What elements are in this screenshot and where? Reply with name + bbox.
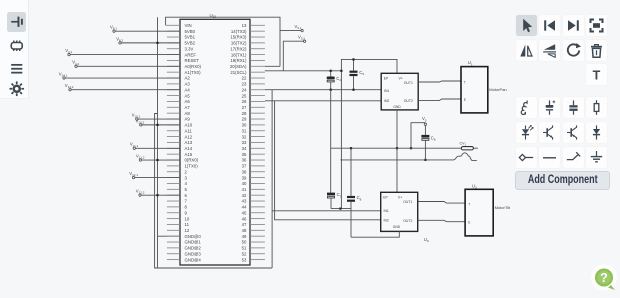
pin 27 (right row 15) [250,106,265,108]
svg-text:A10: A10 [185,123,193,128]
op-amp U11 motor driver MotorPan [381,73,418,110]
svg-text:C5: C5 [359,70,364,76]
pin 5VB0 (left row 2) [167,30,180,32]
wire driver U9 GND [351,231,399,237]
wire supply rail to driver U11 V+ [341,59,397,73]
pin 9 (left row 33) [167,212,180,214]
svg-text:5VB1: 5VB1 [185,35,196,40]
svg-text:43: 43 [242,199,247,204]
svg-text:GND@0: GND@0 [185,234,202,239]
svg-text:A6: A6 [185,99,191,104]
node V11,2 terminal [139,159,141,161]
pin A2 (left row 10) [167,77,180,79]
svg-text:OUT1: OUT1 [404,81,413,85]
pin A5 (left row 13) [167,95,180,97]
svg-text:26: 26 [242,99,247,104]
svg-text:OUT2: OUT2 [403,219,412,223]
pin A3 (left row 11) [167,83,180,85]
svg-text:48: 48 [242,228,247,233]
pin 31 (right row 19) [250,130,265,132]
svg-text:A15: A15 [185,152,193,157]
svg-text:27: 27 [242,105,247,110]
svg-text:21(SCL): 21(SCL) [230,70,247,75]
svg-text:A11: A11 [185,128,193,133]
svg-text:U1: U1 [468,60,473,66]
pin A13 (left row 21) [167,141,180,143]
pin 10 (left row 34) [167,218,180,220]
svg-text:46: 46 [242,216,247,221]
svg-text:29: 29 [242,117,247,122]
pin 26 (right row 14) [250,100,265,102]
wire IC to driver U11 IN1 [265,89,381,91]
pin 3 (left row 27) [167,177,180,179]
wire pin 20(SDA) to node V3,1 [265,31,301,67]
svg-text:23: 23 [242,82,247,87]
svg-text:C4: C4 [336,76,341,82]
node V11,1 terminal [133,147,135,149]
svg-text:AREF: AREF [185,52,197,57]
svg-text:V+: V+ [398,196,402,200]
node V12,2 terminal [139,194,141,196]
svg-text:V3,1: V3,1 [295,24,302,30]
svg-text:28: 28 [242,111,247,116]
pin 51 (right row 39) [250,247,265,249]
svg-text:18(TX1): 18(TX1) [231,52,247,57]
svg-text:39: 39 [242,175,247,180]
capacitor C4 [330,71,332,77]
svg-text:V5: V5 [422,116,427,122]
svg-text:A1(TX0): A1(TX0) [185,70,202,75]
node V3,2 terminal [303,40,305,42]
svg-text:OUT1: OUT1 [403,200,412,204]
pin 24 (right row 12) [250,89,265,91]
svg-text:E: E [464,98,466,102]
pin 33 (right row 21) [250,141,265,143]
pin 52 (right row 40) [250,253,265,255]
node V4,1 terminal [68,53,70,55]
svg-text:?: ? [600,271,608,285]
pin A11 (left row 19) [167,130,180,132]
pin RESET (left row 7) [167,59,180,61]
pin A1(TX0) (left row 9) [167,71,180,73]
svg-text:V14,1: V14,1 [59,71,68,77]
pin 11 (left row 35) [167,223,180,225]
pin 23 (right row 11) [250,83,265,85]
op-amp U10 main microcontroller body [180,19,250,265]
wire driver U9 OUT1 to motor [418,202,465,204]
pin 12 (left row 36) [167,229,180,231]
wire vertical to MotorTilt driver IN2 [275,101,381,220]
svg-text:E: E [468,220,470,224]
pin 13 (right row 1) [250,24,265,26]
svg-text:A14: A14 [185,146,193,151]
svg-text:51: 51 [242,246,247,251]
pin 47 (right row 35) [250,223,265,225]
wire top rail from VIN around IC [166,17,280,66]
pin A9 (left row 17) [167,118,180,120]
svg-text:31: 31 [242,128,247,133]
pin 5VB2 (left row 4) [167,42,180,44]
pin 46 (right row 34) [250,218,265,220]
svg-text:11: 11 [185,222,190,227]
pin 49 (right row 37) [250,235,265,237]
pin 40 (right row 28) [250,182,265,184]
svg-text:A12: A12 [185,134,193,139]
wire C4 bottom down to C7 [330,90,332,193]
svg-text:34: 34 [242,146,247,151]
pin A14 (left row 22) [167,147,180,149]
svg-text:GND@3: GND@3 [185,251,202,256]
pin A7 (left row 15) [167,106,180,108]
svg-text:5VB2: 5VB2 [185,41,196,46]
pin GND@4 (left row 41) [167,259,180,261]
pin 44 (right row 32) [250,206,265,208]
wire V5 supply rail [331,147,478,149]
pin 18(TX1) (right row 6) [250,54,265,56]
pin A8 (left row 16) [167,112,180,114]
wire pin 21(SCL) to node V3,2 [265,41,342,71]
pin 48 (right row 36) [250,229,265,231]
pin 25 (right row 13) [250,95,265,97]
pin 1(TX0) (left row 25) [167,165,180,167]
pin 42 (right row 30) [250,194,265,196]
svg-text:T: T [468,203,470,207]
pin GND@1 (left row 38) [167,241,180,243]
svg-text:U10: U10 [210,13,217,19]
wire vertical to MotorTilt driver IN1 [272,90,381,268]
svg-text:V12,1: V12,1 [129,171,138,177]
wire long vertical net x341 [340,71,342,209]
capacitor C6 [424,125,426,134]
svg-text:17(RX2): 17(RX2) [230,46,247,51]
pin 5 (left row 29) [167,188,180,190]
pin A4 (left row 12) [167,89,180,91]
svg-text:44: 44 [242,205,247,210]
svg-text:A5: A5 [185,93,191,98]
wire V5 to rail 148 [411,123,425,149]
pin A15 (left row 23) [167,153,180,155]
svg-text:C8: C8 [357,195,362,201]
wire bus to GND@0 pin [158,235,181,237]
pin 41 (right row 29) [250,188,265,190]
svg-text:U9: U9 [424,237,429,243]
pin 53 (right row 41) [250,259,265,261]
svg-text:45: 45 [242,210,247,215]
svg-text:20(SDA): 20(SDA) [230,64,247,69]
svg-text:IN2: IN2 [384,99,389,103]
pin GND@2 (left row 39) [167,247,180,249]
svg-text:VIN: VIN [185,23,192,28]
pin 16(TX2) (right row 4) [250,42,265,44]
pin 45 (right row 33) [250,212,265,214]
svg-text:49: 49 [242,234,247,239]
pin 20(SDA) (right row 8) [250,65,265,67]
svg-text:53: 53 [242,257,247,262]
svg-text:38: 38 [242,169,247,174]
pin GND@0 (left row 37) [167,235,180,237]
svg-text:13: 13 [242,23,247,28]
svg-text:V12,2: V12,2 [136,189,145,195]
wire IC to driver U11 IN2 [265,100,381,102]
pin 3.3V (left row 5) [167,48,180,50]
svg-text:22: 22 [242,76,247,81]
pin AREF (left row 6) [167,54,180,56]
svg-text:EP: EP [383,195,388,199]
pin 37 (right row 25) [250,165,265,167]
svg-text:V4,1: V4,1 [65,48,72,54]
svg-text:40: 40 [242,181,247,186]
pin 15(RX3) (right row 3) [250,36,265,38]
svg-text:IN1: IN1 [384,89,389,93]
svg-text:T: T [464,80,466,84]
svg-text:A8: A8 [185,111,191,116]
svg-text:5VB0: 5VB0 [185,29,196,34]
svg-text:V11,2: V11,2 [136,153,145,159]
motor U3 MotorTilt block [465,189,493,236]
svg-text:V14,2: V14,2 [65,83,74,89]
svg-text:A3: A3 [185,82,191,87]
pin A6 (left row 14) [167,100,180,102]
svg-text:MotorPan: MotorPan [489,87,506,92]
svg-text:47: 47 [242,222,247,227]
svg-text:C7: C7 [337,192,342,198]
capacitor C5 [353,59,355,70]
svg-text:41: 41 [242,187,247,192]
wire outer loop left+bottom [155,114,273,269]
svg-text:A4: A4 [185,87,191,92]
svg-text:OUT2: OUT2 [404,99,413,103]
svg-text:33: 33 [242,140,247,145]
pin 36 (right row 24) [250,159,265,161]
svg-text:3.3V: 3.3V [185,46,194,51]
pin 22 (right row 10) [250,77,265,79]
svg-text:V+: V+ [399,77,403,81]
pin A12 (left row 20) [167,136,180,138]
svg-text:V8,1: V8,1 [110,25,117,31]
svg-text:V4,2: V4,2 [72,60,79,66]
op-amp U9 motor driver MotorTilt [381,192,418,231]
svg-text:32: 32 [242,134,247,139]
pin 39 (right row 27) [250,177,265,179]
svg-text:A0(RX0): A0(RX0) [185,64,202,69]
pin 5VB1 (left row 3) [167,36,180,38]
pin 17(RX2) (right row 5) [250,48,265,50]
svg-text:V8,2: V8,2 [116,36,123,42]
pin 21(SCL) (right row 9) [250,71,265,73]
svg-text:50: 50 [242,240,247,245]
svg-text:CV1: CV1 [460,142,467,147]
node V8,1 terminal [113,30,115,32]
svg-text:36: 36 [242,158,247,163]
svg-text:GND@4: GND@4 [185,257,202,262]
svg-text:52: 52 [242,251,247,256]
pin 2 (left row 26) [167,171,180,173]
svg-text:RESET: RESET [185,58,200,63]
wire driver U9 OUT2 to motor [418,220,465,221]
pin 50 (right row 38) [250,241,265,243]
node V4,2 terminal [75,65,77,67]
pin 0(RX0) (left row 24) [167,159,180,161]
fuse CV1 in series [461,147,473,150]
pin VIN (left row 1) [166,24,181,26]
node V3,1 terminal [301,29,303,31]
pin GND@3 (left row 40) [167,253,180,255]
svg-text:37: 37 [242,164,247,169]
svg-text:25: 25 [242,93,247,98]
node V14,2 terminal [69,89,71,91]
svg-text:V11,1: V11,1 [130,142,139,148]
wire cap ground segment [331,208,351,210]
pin 43 (right row 31) [250,200,265,202]
svg-text:GND@2: GND@2 [185,246,202,251]
svg-text:V3,2: V3,2 [298,35,305,41]
pin 7 (left row 31) [167,200,180,202]
svg-text:GND: GND [393,225,401,229]
svg-text:T: T [593,69,601,83]
pin 19(RX1) (right row 7) [250,59,265,61]
node V14,1 terminal [63,77,65,79]
svg-text:MotorTilt: MotorTilt [495,205,511,210]
pin 34 (right row 22) [250,147,265,149]
svg-text:GND: GND [393,105,401,109]
node V10,1 terminal [136,118,138,120]
wire driver U11 OUT2 to motor [418,99,461,100]
svg-text:C6: C6 [431,135,436,141]
svg-text:A9: A9 [185,117,191,122]
pin 8 (left row 32) [167,206,180,208]
pin 38 (right row 26) [250,171,265,173]
svg-text:19(RX1): 19(RX1) [230,58,247,63]
svg-text:0(RX0): 0(RX0) [185,158,199,163]
pin 29 (right row 17) [250,118,265,120]
wire ground bus [157,17,159,268]
node V12,1 terminal [132,176,134,178]
svg-text:A2: A2 [185,76,191,81]
svg-text:12: 12 [185,228,190,233]
node V8,2 terminal [119,42,121,44]
pin 4 (left row 28) [167,182,180,184]
pin A10 (left row 18) [167,124,180,126]
motor U1 MotorPan block [461,67,488,113]
pin 35 (right row 23) [250,153,265,155]
svg-text:15(RX3): 15(RX3) [230,35,247,40]
wire driver U11 OUT1 to motor [418,81,461,82]
svg-text:10: 10 [185,216,190,221]
svg-text:30: 30 [242,123,247,128]
svg-text:A7: A7 [185,105,191,110]
node V10,2 terminal [140,124,142,126]
pin 30 (right row 18) [250,124,265,126]
svg-text:16(TX2): 16(TX2) [231,41,247,46]
svg-text:24: 24 [242,87,247,92]
pin 32 (right row 20) [250,136,265,138]
pin A0(RX0) (left row 8) [167,65,180,67]
svg-text:35: 35 [242,152,247,157]
pin 6 (left row 30) [167,194,180,196]
capacitor C7 [327,193,335,196]
svg-text:42: 42 [242,193,247,198]
svg-text:GND@1: GND@1 [185,240,202,245]
wire driver U11 GND down to V5 rail and driver U9 V+ [396,110,398,192]
svg-text:IN1: IN1 [384,209,389,213]
svg-text:EP: EP [384,76,389,80]
svg-text:A13: A13 [185,140,193,145]
junction dots on ground bus [156,42,158,44]
pin 14(TX3) (right row 2) [250,30,265,32]
pin 28 (right row 16) [250,112,265,114]
capacitor C8 [350,148,352,196]
wire ground line with hump [340,153,476,161]
svg-text:14(TX3): 14(TX3) [231,29,247,34]
svg-text:1(TX0): 1(TX0) [185,164,199,169]
svg-text:IN2: IN2 [384,219,389,223]
